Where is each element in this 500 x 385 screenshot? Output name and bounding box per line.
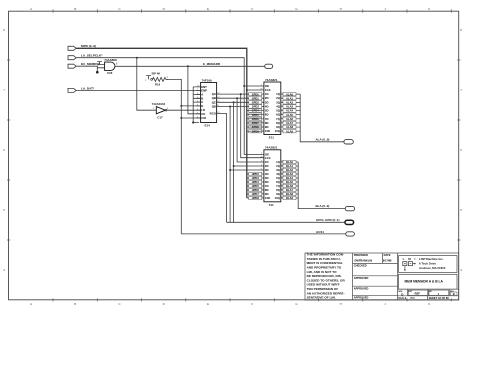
svg-text:ALA8: ALA8 [286,125,294,129]
svg-text:NO.: NO. [429,291,433,293]
svg-text:APPROVED: APPROVED [354,286,369,290]
wire EC_MEMRQ* to AND gate input [76,66,104,72]
register F11 pin names [265,152,271,200]
svg-text:HPD4: HPD4 [252,180,260,184]
svg-text:HPD6: HPD6 [252,188,260,192]
svg-text:ALA (0..9): ALA (0..9) [316,137,330,141]
svg-text:HPD7: HPD7 [252,192,260,196]
register E11 pin names [265,84,271,133]
svg-text:4: 4 [460,268,462,272]
counter E14 left pin names [201,85,207,120]
svg-text:SPD3: SPD3 [252,105,260,109]
connector EC_MEMRQ* input [68,64,76,68]
svg-text:MEM MEMADR A & B LA: MEM MEMADR A & B LA [405,280,444,284]
connector LA_SELPCLK* input [68,56,76,60]
svg-text:ALA7: ALA7 [286,121,294,125]
svg-text:G: G [295,302,298,306]
svg-text:DWFRANKLIN: DWFRANKLIN [355,259,373,263]
junction on LA_SELPCLK* at inverter branch [136,57,138,59]
resistor R16 SIP 4K zigzag [153,77,169,81]
svg-text:10Q: 10Q [275,196,281,200]
svg-text:PREPARED: PREPARED [354,253,368,257]
net labels SPD0-SPD9 on register E11 inputs [249,92,262,95]
svg-text:Andover, MA 01810: Andover, MA 01810 [419,266,446,270]
svg-text:6: 6 [460,148,462,152]
svg-text:BLA (0..9): BLA (0..9) [316,204,330,208]
svg-text:ALA6: ALA6 [286,117,294,121]
wire GPCL GPD bus to right connector [227,221,345,223]
junction E11 OE tap [243,85,245,87]
svg-text:ALA3: ALA3 [286,105,294,109]
junction pulled-up net to counter D pin [180,105,182,107]
wire branch to counter E14 U/D pin [181,117,200,119]
svg-text:E: E [207,302,209,306]
svg-text:SCALE: SCALE [398,297,407,300]
svg-text:5: 5 [460,208,462,212]
svg-text:RCO: RCO [210,112,217,116]
svg-text:CAT.: CAT. [408,290,413,293]
svg-text:C: C [118,7,121,11]
border zone letters and tick marks (top/bottom) [30,7,431,306]
svg-text:CHECKED: CHECKED [354,264,367,268]
svg-text:B: B [453,292,455,296]
wires register E11 outputs [281,93,300,95]
wire QD tap down to register F11 3D and GPD line [230,107,264,223]
svg-text:HPD5: HPD5 [252,184,260,188]
svg-text:F: F [251,302,253,306]
confidentiality notice text [307,253,346,300]
title block vertical dividers [353,253,398,300]
counter E14 right pin names [210,92,217,115]
svg-text:B: B [74,302,76,306]
ground pad square below AND gate input [96,71,99,74]
svg-text:10Q: 10Q [275,129,281,133]
resistor R16 left terminal circle [151,79,153,81]
svg-text:APPROVED: APPROVED [354,295,369,299]
wire MPD bus from connector to vertical drop [76,48,247,198]
svg-text:ALA9: ALA9 [286,129,294,133]
svg-text:8: 8 [116,63,118,66]
svg-text:ALA1: ALA1 [286,96,294,100]
wires and net labels HPD2-HPD8 on register F11 inputs [247,173,264,175]
svg-text:QD: QD [212,105,216,109]
drawing title box [399,274,457,289]
junction dot at bottom of tie line [192,121,194,123]
net labels ALA0-ALA9 on register E11 outputs [283,92,296,95]
AND gate U18 74AS808 body [105,62,115,70]
counter E14 74F169 body [201,83,217,123]
svg-text:HPD2: HPD2 [252,172,260,176]
connector E_MEMADR output [265,64,273,68]
wire AUX1 long horizontal run to right connector [181,233,345,235]
counter E14 pin numbers [197,86,220,119]
svg-text:L M I: L M I [403,257,417,261]
svg-text:B: B [74,7,76,11]
svg-text:74AS821: 74AS821 [265,146,278,150]
svg-text:4: 4 [3,268,5,272]
wire BLA bus gather down to connector [298,162,345,209]
title block bottom row cells [398,289,459,300]
svg-text:6 Tech Drive: 6 Tech Drive [419,262,436,266]
svg-text:LA_DAT*: LA_DAT* [81,86,95,90]
wire from R16 down the long pulled-up net [166,79,181,234]
junction QA tap [240,93,242,95]
wire register E11 OE from LA_SELPCLK vertical [244,85,264,87]
svg-text:BLA7: BLA7 [286,188,294,192]
svg-text:DATE: DATE [384,253,391,257]
svg-text:ALA2: ALA2 [286,100,294,104]
svg-text:E11: E11 [269,136,275,140]
svg-text:BLA3: BLA3 [286,172,294,176]
wire counter QC to register E11 input [217,101,264,103]
svg-text:BLA2: BLA2 [286,168,294,172]
connector LA_DAT* input [68,88,76,92]
wire register E11 CLK from MPD bus vertical [247,89,264,91]
svg-text:SPD2: SPD2 [252,100,260,104]
svg-text:D: D [163,302,166,306]
svg-text:D: D [163,7,166,11]
svg-text:U/D: U/D [201,116,206,120]
svg-text:SPD1: SPD1 [252,96,260,100]
svg-text:BLA4: BLA4 [286,176,294,180]
svg-text:J: J [384,7,386,11]
svg-text:ALA4: ALA4 [286,109,294,113]
svg-text:BLA5: BLA5 [286,180,294,184]
svg-text:SHEET 18 OF 86: SHEET 18 OF 86 [429,296,450,300]
svg-text:F: F [251,7,253,11]
junction QB tap [236,97,238,99]
svg-text:EC_MEMRQ*: EC_MEMRQ* [81,62,101,66]
svg-text:HPD8: HPD8 [252,196,260,200]
svg-text:1: 1 [145,80,147,82]
wire LA_DAT* to counter E14 ENP pin [76,89,200,91]
wire QA tap down to register F11 CLK [241,94,264,158]
svg-text:SIP 4K: SIP 4K [152,71,161,75]
svg-text:ALA0: ALA0 [286,92,294,96]
svg-text:BLA9: BLA9 [286,196,294,200]
svg-text:APPROVED: APPROVED [354,276,369,280]
svg-text:U18: U18 [107,71,113,75]
svg-text:R16: R16 [155,83,161,87]
svg-text:AUX1: AUX1 [316,230,324,234]
svg-text:H: H [340,302,342,306]
svg-text:SENTATIVE OF LMI.: SENTATIVE OF LMI. [307,296,336,300]
svg-text:BLA6: BLA6 [286,184,294,188]
svg-text:74AS808: 74AS808 [104,58,117,62]
wire inverter output to counter LOAD pin [167,109,201,111]
connector ALA output [344,140,353,144]
register E11 74AS821 body [264,82,281,135]
svg-text:K: K [428,7,431,11]
wire QC tap down to register F11 2D and GPD line [234,102,264,222]
title block signature row lines [353,253,398,295]
svg-text:ALA5: ALA5 [286,113,294,117]
title block inner cell boxes [408,290,427,295]
wire counter QA to register E11 input [217,93,264,95]
wire E_MEMADR branch down to counter E14 CK pin [188,66,201,114]
connector BLA output [345,206,354,210]
register E11 pin numbers [260,85,284,132]
svg-text:A: A [30,7,33,11]
counter E14 left pin stubs [196,86,200,88]
svg-text:GPCL GPD (0..1): GPCL GPD (0..1) [316,218,339,222]
svg-text:- REF: - REF [413,292,420,296]
svg-text:HPD3: HPD3 [252,176,260,180]
svg-text:E_MEMADR: E_MEMADR [203,62,221,66]
junction QD tap [229,106,231,108]
svg-text:P/U: P/U [411,297,415,300]
connector AUX1 output [346,232,355,236]
svg-text:10D: 10D [265,129,270,133]
register F11 pin numbers [260,153,284,199]
junction E11 CLK tap [246,89,248,91]
svg-text:LA_SELPCLK*: LA_SELPCLK* [81,54,103,58]
junction QD tap at F11 3D [229,169,231,171]
inverter C17 74AS1004 body [156,107,165,114]
wire counter QD to register E11 input [217,106,264,108]
svg-text:74F169: 74F169 [202,78,213,82]
company logo box [399,256,457,273]
wire QB tap down to register F11 1D [237,98,264,162]
junction QC tap [233,101,235,103]
junction on E_MEMADR at counter clock branch [187,65,189,67]
svg-text:8: 8 [460,28,462,32]
svg-text:MPD (0..9): MPD (0..9) [81,44,96,48]
wires MPD bus taps to E11 inputs 5D-10D [247,110,264,112]
connector GPCL GPD output (bold) [345,220,354,224]
wire LA_SELPCLK* branch down to inverter C17 input [137,58,157,110]
svg-text:9/17/86: 9/17/86 [383,259,392,263]
svg-text:BLA8: BLA8 [286,192,294,196]
svg-text:H: H [340,7,342,11]
pull-up tee symbol on AND gate input [97,62,104,65]
svg-text:BLA1: BLA1 [286,164,294,168]
svg-text:BLA0: BLA0 [286,160,294,164]
signature column text [354,253,392,299]
svg-text:5: 5 [3,208,5,212]
company name text [419,257,446,270]
svg-text:6: 6 [3,148,5,152]
wire branch to counter E14 D pin [181,105,200,107]
wires register F11 outputs [281,161,298,163]
title block outer box [305,253,459,300]
junction QC tap at F11 2D [233,165,235,167]
pull-up tee on resistor R16 pin 1 [146,76,151,80]
svg-text:J: J [384,302,386,306]
svg-text:7: 7 [460,88,462,92]
connector MPD bus input [68,46,76,50]
wire LA_SELPCLK* to register F11 OE [76,58,264,155]
svg-text:E14: E14 [205,123,211,127]
wire tie of counter A B C inputs [193,87,200,123]
svg-text:74AS1004: 74AS1004 [152,102,166,106]
wire ALA bus gather down to connector [300,94,344,142]
svg-text:LISP Machine Inc.: LISP Machine Inc. [419,257,444,261]
wire counter QB to register E11 input [217,97,264,99]
svg-text:K: K [428,302,431,306]
svg-text:7: 7 [3,88,5,92]
drawing border frame [9,11,459,300]
border zone numbers and tick marks (left/right) [3,28,462,272]
svg-text:F11: F11 [269,203,274,207]
svg-text:10D: 10D [265,196,270,200]
svg-text:74AS821: 74AS821 [265,78,278,82]
svg-text:8: 8 [3,28,5,32]
svg-text:G: G [295,7,298,11]
svg-text:A: A [30,302,33,306]
svg-text:9: 9 [167,77,169,79]
register F11 74AS821 body [264,150,281,202]
svg-text:C: C [118,302,121,306]
svg-text:E: E [207,7,209,11]
junction pulled-up net to counter U/D pin [180,117,182,119]
wire counter RCO down to GPCL line [217,114,227,223]
svg-text:SPD0: SPD0 [252,92,260,96]
svg-text:C17: C17 [157,115,163,119]
wire E_MEMADR from gate output to right connector [115,65,265,67]
net labels BLA0-BLA9 on register F11 outputs [283,160,296,163]
